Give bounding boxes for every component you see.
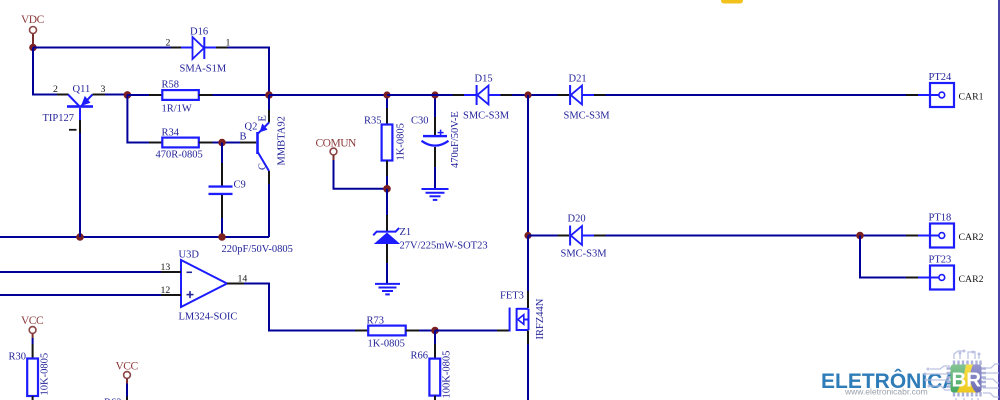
svg-text:3: 3 bbox=[101, 84, 106, 95]
transistor Q11 bbox=[57, 95, 105, 134]
op-amp U3D bbox=[161, 260, 244, 307]
svg-text:R30: R30 bbox=[9, 352, 27, 363]
capacitor C30 bbox=[422, 95, 449, 188]
wire FET source to bottom bbox=[527, 344, 529, 400]
wire rail x269 to R35 node bbox=[269, 94, 387, 96]
svg-text:SMA-S1M: SMA-S1M bbox=[180, 64, 227, 75]
svg-text:470uF/50V-E: 470uF/50V-E bbox=[450, 111, 461, 168]
wire C9 to bottom rail bbox=[221, 218, 223, 237]
resistor R30 bbox=[27, 344, 38, 400]
resistor R58 bbox=[149, 90, 213, 100]
wire output to R73 bbox=[244, 284, 355, 331]
junction PT23 tap bbox=[856, 232, 864, 240]
pin of R62 bbox=[126, 397, 128, 400]
svg-text:FET3: FET3 bbox=[500, 291, 524, 302]
wire D15 to D21 node bbox=[512, 94, 558, 96]
wire rail R35 to C30 bbox=[387, 94, 435, 96]
wire Q11 base vertical bbox=[79, 133, 81, 237]
wire gate node to FET3 bbox=[435, 330, 497, 332]
wire VCC to R30 bbox=[32, 338, 34, 344]
svg-text:E: E bbox=[258, 115, 269, 121]
junction Q11 collector node bbox=[124, 91, 132, 99]
resistor R66 bbox=[429, 331, 440, 400]
diode D21 bbox=[558, 85, 606, 105]
svg-text:470R-0805: 470R-0805 bbox=[156, 150, 203, 161]
svg-text:SMC-S3M: SMC-S3M bbox=[463, 111, 510, 122]
svg-text:2: 2 bbox=[53, 84, 58, 95]
svg-text:TIP127: TIP127 bbox=[43, 113, 75, 124]
svg-text:D16: D16 bbox=[190, 27, 208, 38]
svg-text:PT24: PT24 bbox=[929, 72, 953, 83]
svg-text:B: B bbox=[240, 132, 247, 143]
wire junction to R58 bbox=[127, 94, 149, 96]
svg-text:1K-0805: 1K-0805 bbox=[368, 339, 405, 350]
wire D21 to PT24 bbox=[606, 94, 907, 96]
wire input pin 12 bbox=[0, 294, 161, 296]
svg-text:R66: R66 bbox=[411, 351, 429, 362]
sheet border right edge bbox=[998, 0, 1000, 400]
resistor R35 bbox=[382, 95, 393, 189]
junction at VDC node bbox=[29, 44, 37, 52]
power port VCC middle bbox=[116, 361, 139, 384]
svg-text:2: 2 bbox=[166, 38, 171, 49]
wire Q2 collector down bbox=[268, 184, 270, 237]
svg-text:SMC-S3M: SMC-S3M bbox=[564, 111, 611, 122]
wire Q11 to junction bbox=[105, 94, 127, 96]
wire base branch down to R34 bbox=[127, 95, 149, 143]
svg-text:100K-0805: 100K-0805 bbox=[442, 351, 453, 399]
logo chip bbox=[947, 361, 987, 397]
ground below Z1 bbox=[375, 284, 400, 295]
resistor R73 bbox=[355, 326, 419, 336]
svg-text:www.eletronicabr.com: www.eletronicabr.com bbox=[844, 387, 928, 397]
power port VCC left bbox=[21, 315, 44, 338]
svg-text:C30: C30 bbox=[411, 116, 429, 127]
resistor R34 bbox=[149, 138, 213, 148]
svg-text:C: C bbox=[258, 163, 269, 170]
yellow marker top bbox=[721, 0, 743, 4]
transistor Q2 bbox=[240, 95, 269, 184]
svg-text:R35: R35 bbox=[364, 116, 382, 127]
mosfet FET3 bbox=[497, 291, 529, 344]
wire R58 to rail node bbox=[213, 94, 270, 96]
svg-text:VCC: VCC bbox=[116, 361, 139, 373]
svg-text:LM324-SOIC: LM324-SOIC bbox=[179, 312, 238, 323]
svg-text:MMBTA92: MMBTA92 bbox=[277, 116, 288, 165]
svg-text:CAR2: CAR2 bbox=[959, 232, 984, 243]
svg-text:SMC-S3M: SMC-S3M bbox=[561, 249, 608, 260]
connector PT24 bbox=[906, 83, 954, 107]
diode D20 bbox=[558, 226, 606, 246]
svg-text:R34: R34 bbox=[162, 128, 180, 139]
wire input pin 13 bbox=[0, 271, 161, 273]
wire D20 to PT18 bbox=[606, 235, 907, 237]
junction zener node bbox=[383, 185, 391, 193]
svg-text:C9: C9 bbox=[234, 180, 246, 191]
diode D16 bbox=[171, 37, 228, 59]
svg-text:1R/1W: 1R/1W bbox=[162, 104, 192, 115]
svg-text:220pF/50V-0805: 220pF/50V-0805 bbox=[222, 244, 293, 255]
svg-text:D21: D21 bbox=[569, 74, 587, 85]
svg-text:1K-0805: 1K-0805 bbox=[396, 123, 407, 160]
wire R34 to Q2 base bbox=[213, 142, 241, 144]
svg-text:PT18: PT18 bbox=[929, 213, 952, 224]
junction C9 tap bbox=[218, 139, 226, 147]
ground below C30 bbox=[422, 189, 449, 200]
svg-text:Q11: Q11 bbox=[73, 84, 91, 95]
svg-text:13: 13 bbox=[161, 262, 171, 273]
wire FET drain vertical bbox=[527, 95, 529, 236]
svg-text:U3D: U3D bbox=[179, 250, 200, 261]
capacitor C9 bbox=[209, 143, 233, 219]
diode D15 bbox=[453, 85, 513, 105]
svg-text:CAR1: CAR1 bbox=[959, 92, 984, 103]
logo circuit traces bbox=[926, 351, 999, 400]
connector PT18 bbox=[906, 224, 954, 248]
junction rail at R35 bbox=[383, 91, 390, 98]
svg-text:12: 12 bbox=[161, 285, 171, 296]
svg-text:R73: R73 bbox=[367, 316, 385, 327]
svg-text:10K-0805: 10K-0805 bbox=[40, 353, 51, 396]
svg-text:PT23: PT23 bbox=[929, 255, 952, 266]
svg-text:R58: R58 bbox=[162, 80, 180, 91]
wire D16 to rail corner bbox=[228, 48, 270, 96]
wire PT23 branch bbox=[860, 236, 906, 278]
junction gate node bbox=[431, 327, 439, 335]
wire D20 node to D20 bbox=[528, 235, 558, 237]
junction FET drain node bbox=[524, 91, 531, 98]
power port COMUN bbox=[316, 138, 358, 161]
svg-text:VDC: VDC bbox=[21, 14, 45, 26]
svg-text:VCC: VCC bbox=[21, 315, 44, 327]
svg-text:D15: D15 bbox=[475, 74, 493, 85]
junction rail at C30 bbox=[431, 91, 438, 98]
wire bottom rail y237 bbox=[0, 236, 269, 238]
junction C9 at y237 bbox=[218, 233, 226, 241]
svg-text:IRFZ44N: IRFZ44N bbox=[535, 298, 546, 339]
junction D20 node bbox=[524, 232, 531, 239]
svg-text:27V/225mW-SOT23: 27V/225mW-SOT23 bbox=[400, 241, 488, 252]
svg-text:Z1: Z1 bbox=[400, 227, 412, 238]
wire D20 node down to FET bbox=[527, 236, 529, 292]
svg-text:COMUN: COMUN bbox=[316, 138, 358, 150]
wire VCC to R62 bbox=[126, 384, 128, 397]
svg-text:BR: BR bbox=[952, 369, 982, 392]
connector PT23 bbox=[906, 266, 954, 290]
wire VDC node to D16 bbox=[33, 47, 171, 49]
wire VDC down to Q11 bbox=[33, 48, 57, 95]
svg-text:CAR2: CAR2 bbox=[959, 274, 984, 285]
wire rail C30 to D15 bbox=[435, 94, 453, 96]
zener diode Z1 bbox=[373, 189, 400, 283]
wire COMUN to zener node bbox=[334, 160, 388, 189]
junction rail at x269 bbox=[265, 91, 273, 99]
power port VDC bbox=[21, 14, 45, 44]
wire R73 to gate node bbox=[419, 330, 435, 332]
svg-text:D20: D20 bbox=[568, 214, 586, 225]
junction Q11 base at y237 bbox=[76, 233, 84, 241]
